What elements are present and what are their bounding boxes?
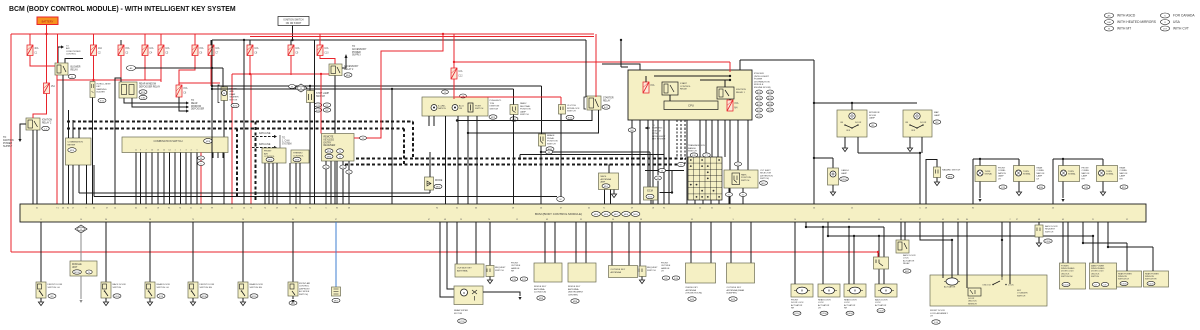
red receiver right feed xyxy=(354,34,443,138)
svg-text:B108: B108 xyxy=(201,296,207,298)
svg-text:CPU: CPU xyxy=(688,104,694,108)
front door lock actuator RH xyxy=(791,284,813,297)
map lamp grounds xyxy=(909,137,911,148)
wire fuse10A-7 down xyxy=(210,56,212,87)
receiver wire ovals xyxy=(323,165,329,169)
dashed D1 turn down xyxy=(412,122,414,159)
cargo lamp xyxy=(828,168,839,185)
wire fuse10A-2 down xyxy=(93,56,95,81)
svg-text:10A: 10A xyxy=(98,47,103,50)
svg-text:ECM: ECM xyxy=(647,190,653,193)
rear power window sw LH xyxy=(1117,271,1142,287)
svg-text:WITH CVT: WITH CVT xyxy=(1173,27,1189,31)
svg-text:15A: 15A xyxy=(183,87,188,90)
junction ign bus xyxy=(291,39,293,41)
svg-text:FOR CANADA: FOR CANADA xyxy=(1173,14,1195,18)
back door lock actuator relay xyxy=(896,240,909,253)
wire fuse stub up xyxy=(319,34,321,45)
dongle unit connector xyxy=(75,225,87,233)
svg-text:15A: 15A xyxy=(650,84,655,87)
turn signal rear RH xyxy=(1097,166,1118,182)
red drop to BCM x232 xyxy=(231,74,233,204)
ECM side network xyxy=(660,192,673,194)
ignition relay 1 xyxy=(717,87,734,99)
wire y152 link xyxy=(541,151,650,153)
wire x687 to BCM xyxy=(686,120,688,204)
wire fuse stub up xyxy=(120,40,122,45)
rear power window sw RH xyxy=(1144,271,1169,287)
black feeds into PDM left xyxy=(602,64,640,70)
svg-text:COMBINATION SWITCH: COMBINATION SWITCH xyxy=(153,139,182,143)
dashed data line D1 xyxy=(67,121,413,123)
svg-text:IGNITIONRELAY 2: IGNITIONRELAY 2 xyxy=(42,120,53,125)
svg-text:15A: 15A xyxy=(125,47,130,50)
stop lamp ovals xyxy=(314,103,322,107)
actuator feed wires xyxy=(794,222,796,284)
transmission range switch xyxy=(688,157,722,200)
svg-text:M: M xyxy=(885,289,887,293)
svg-text:D702: D702 xyxy=(459,321,465,323)
svg-text:M: M xyxy=(1108,28,1110,30)
wires PDM to BCM xyxy=(631,120,633,204)
combination switch xyxy=(122,137,228,153)
wire battery to bus xyxy=(46,25,48,35)
circled conn A6 xyxy=(127,67,212,69)
wire fuse stub up xyxy=(160,34,162,45)
assembly actuator xyxy=(946,278,958,285)
rear door lock actuator LH xyxy=(818,284,840,297)
svg-text:ON: ON xyxy=(840,122,844,124)
svg-text:40A: 40A xyxy=(34,47,39,50)
oval x658 xyxy=(657,120,659,175)
wires receiver to BCM xyxy=(325,161,327,204)
svg-text:D305: D305 xyxy=(1121,283,1127,285)
svg-text:D405: D405 xyxy=(1148,283,1154,285)
svg-text:REAR DOORSWITCH RH: REAR DOORSWITCH RH xyxy=(250,283,264,289)
black h y89 xyxy=(212,88,514,90)
wire fuse15A-6 jog xyxy=(179,56,195,86)
red drop to BCM x251 xyxy=(250,74,252,204)
svg-text:C12: C12 xyxy=(458,75,463,78)
rear door switch LH xyxy=(149,222,151,282)
PDM fuse 15A no2 xyxy=(727,100,739,111)
wire H2 long xyxy=(94,196,557,198)
turn RH wires xyxy=(1052,159,1054,204)
red feed acc relay xyxy=(251,73,329,75)
PDM internal wires xyxy=(654,75,730,77)
wire fuse stub up xyxy=(194,34,196,45)
red bus B xyxy=(454,61,730,63)
red feed defogger xyxy=(57,80,161,82)
red keyless feed xyxy=(320,73,322,75)
hazard switch xyxy=(926,160,937,205)
power window sw RH xyxy=(1060,263,1086,289)
request switch front RH xyxy=(489,222,491,266)
fuse 10A at x288 xyxy=(288,45,300,56)
svg-text:D105: D105 xyxy=(1063,284,1069,286)
fuse 10A pushign xyxy=(451,68,463,79)
outside key antenna rear bumper xyxy=(730,222,732,263)
wire NATS top xyxy=(608,165,610,174)
svg-text:15A: 15A xyxy=(51,85,56,88)
wire x244 down xyxy=(243,40,245,204)
turn signal front LH xyxy=(975,166,996,182)
svg-text:BCM (BODY CONTROL MODULE) - WI: BCM (BODY CONTROL MODULE) - WITH INTELLI… xyxy=(9,6,236,13)
ignition switch source xyxy=(278,17,309,26)
wire y154 link xyxy=(520,154,664,156)
fuse 10A at x247 xyxy=(247,45,259,56)
red feed push ign xyxy=(453,34,455,68)
rear window defogger relay xyxy=(119,82,137,98)
wire fuse stub up xyxy=(290,40,292,45)
red feed clutch xyxy=(455,96,561,98)
dashed data line D2 xyxy=(67,128,404,130)
BCM body control module bar xyxy=(20,204,1146,222)
wire fuse40A down xyxy=(30,56,55,67)
dashed CAN H1 xyxy=(345,158,686,160)
black ignition bus xyxy=(212,39,586,41)
interior lamp feed wire xyxy=(814,102,917,104)
wire fuse10A-10 jog xyxy=(320,56,335,65)
wire fuse stub up xyxy=(93,34,95,45)
black bus to starter xyxy=(585,40,587,97)
svg-text:M: M xyxy=(657,178,659,180)
svg-text:D504: D504 xyxy=(841,179,847,181)
svg-text:10A: 10A xyxy=(215,47,220,50)
wire blower down blk xyxy=(62,75,64,204)
wire fuse15A-3 down xyxy=(120,56,122,83)
svg-text:LOCK: LOCK xyxy=(1008,285,1014,287)
back door request ground xyxy=(1038,237,1040,243)
svg-text:M: M xyxy=(828,289,830,293)
wire clutch down xyxy=(560,114,562,197)
wire x212 down xyxy=(211,40,213,204)
stop lamp switch xyxy=(307,91,315,103)
starter relay xyxy=(584,97,586,109)
svg-text:OFF: OFF xyxy=(911,130,916,132)
fuse 10A at x317 xyxy=(317,45,329,56)
svg-text:M: M xyxy=(463,292,465,295)
cargo lamp ground xyxy=(832,185,834,192)
wire fuse stub up xyxy=(249,40,251,45)
front door lock assembly LH xyxy=(930,275,1047,306)
svg-text:ILLUMI-NATION: ILLUMI-NATION xyxy=(438,106,446,111)
red to back door sw xyxy=(877,251,879,253)
svg-text:10A: 10A xyxy=(149,47,154,50)
push-button ignition switch U1 xyxy=(422,97,488,116)
brake pedal position switch xyxy=(539,134,546,146)
trans ovals xyxy=(690,153,698,157)
remote keyless entry receiver xyxy=(322,134,355,162)
thermo control amp xyxy=(291,150,309,163)
room lamp grounds xyxy=(844,137,846,148)
svg-text:15: 15 xyxy=(80,229,82,231)
dongle ground xyxy=(80,276,82,299)
rear wiper ground link xyxy=(483,292,520,296)
svg-text:USA: USA xyxy=(1173,20,1181,24)
accessory relay 2 xyxy=(329,64,342,76)
svg-text:15A: 15A xyxy=(734,102,739,105)
fuse 40A at x27 xyxy=(27,45,39,56)
ignition relay 2 xyxy=(26,118,40,130)
svg-text:IPDM E/R(INTELLIGENTPOWERDISTR: IPDM E/R(INTELLIGENTPOWERDISTRIBUTIONMOD… xyxy=(754,73,771,89)
outside key antenna front RH xyxy=(456,222,458,264)
svg-text:WITH MT: WITH MT xyxy=(1117,27,1131,31)
comb meter top feeds xyxy=(68,110,70,138)
legend xyxy=(1104,13,1113,18)
PDM fuse 15A xyxy=(643,82,655,93)
wire x314 to BCM xyxy=(314,40,316,204)
svg-text:HM: HM xyxy=(1107,22,1111,24)
svg-text:DATA LINE: DATA LINE xyxy=(259,143,271,146)
comb switch right pins xyxy=(212,153,214,159)
red bus A xyxy=(11,33,594,35)
park pos oval above xyxy=(734,162,741,166)
front door switch LH xyxy=(40,222,42,282)
red washer feed xyxy=(179,82,220,84)
fuse 10A at x208 xyxy=(208,45,220,56)
svg-text:WITH ASCD: WITH ASCD xyxy=(1117,14,1136,18)
svg-text:D506: D506 xyxy=(1045,241,1051,243)
fuse 10A at x158 xyxy=(158,45,170,56)
svg-text:10A: 10A xyxy=(458,70,463,73)
wire fuse10A-9 down xyxy=(290,56,292,76)
power window wires xyxy=(1062,222,1064,263)
svg-text:D114: D114 xyxy=(794,313,800,315)
blue wire connector xyxy=(332,287,341,296)
push ign internals xyxy=(431,105,437,111)
svg-text:WITH HEATED MIRRORS: WITH HEATED MIRRORS xyxy=(1117,20,1157,24)
back door switch xyxy=(105,222,107,282)
red drop x57 xyxy=(57,34,59,63)
fuse 15A defog xyxy=(176,85,188,97)
outside key antenna front LH xyxy=(611,222,613,266)
wires air control down xyxy=(264,163,266,204)
request sw RH ground xyxy=(489,277,491,281)
park position switch xyxy=(724,170,758,188)
wire fuse stub up xyxy=(144,34,146,45)
dashed vert x237 xyxy=(236,129,238,197)
rear door switch RH xyxy=(242,222,244,282)
wire defog relay to bcm xyxy=(114,98,116,204)
wires to rear wiper xyxy=(440,222,454,297)
black h y86 xyxy=(212,85,542,87)
wires park pos xyxy=(737,120,739,162)
rear door lock actuator RH xyxy=(844,284,866,297)
dongle unit xyxy=(70,261,97,276)
blue wire xyxy=(335,222,337,287)
back door request switch xyxy=(1038,222,1040,225)
svg-text:D505: D505 xyxy=(114,296,120,298)
hazard ground xyxy=(936,178,938,183)
wire PDM to ECM xyxy=(647,120,649,187)
svg-text:D304: D304 xyxy=(821,313,827,315)
svg-text:M: M xyxy=(548,152,550,154)
svg-text:10A: 10A xyxy=(165,47,170,50)
wire washer feed xyxy=(212,67,223,69)
turn signal front RH xyxy=(1059,166,1080,182)
wire washer down xyxy=(223,101,225,205)
svg-text:M: M xyxy=(801,289,803,293)
svg-text:CVT: CVT xyxy=(1163,28,1168,30)
wire stop lamp xyxy=(309,86,311,91)
svg-text:D508: D508 xyxy=(878,311,884,313)
svg-text:DATA LINE: DATA LINE xyxy=(259,132,271,135)
junction bus B xyxy=(453,61,455,63)
start control relay xyxy=(662,82,678,95)
turn signal rear LH xyxy=(1014,166,1035,182)
power distribution module PDM xyxy=(628,70,752,120)
PDM connector ovals xyxy=(756,90,763,94)
inside key antenna console xyxy=(544,222,546,263)
front door switch RH xyxy=(192,222,194,282)
request sw LH ground xyxy=(641,277,643,281)
dashed CAN H2 xyxy=(345,164,677,166)
park neutral position switch xyxy=(510,105,518,115)
wire fuse to ignition relay2 xyxy=(46,34,48,83)
NATS antenna amp xyxy=(599,173,619,190)
wire ECM down xyxy=(650,200,652,204)
park neutral oval xyxy=(510,117,518,121)
wires back door relay xyxy=(900,222,902,240)
svg-text:10A: 10A xyxy=(254,47,259,50)
fuse 10A at x142 xyxy=(142,45,154,56)
clutch interlock switch xyxy=(559,105,566,115)
svg-text:ON OR START: ON OR START xyxy=(286,22,302,25)
svg-text:HAZARD SWITCH: HAZARD SWITCH xyxy=(942,169,961,172)
wires push ign to BCM xyxy=(445,116,447,204)
red distribution y74 xyxy=(232,73,329,75)
wire brake feed xyxy=(541,86,543,134)
CPU box xyxy=(664,101,718,110)
red bottom long wire xyxy=(11,251,878,253)
red feed starter relay xyxy=(595,34,597,97)
fuse 15A at x118 xyxy=(118,45,130,56)
red left trunk down xyxy=(10,34,12,252)
wires grid to BCM xyxy=(694,200,696,204)
wire H1 long xyxy=(79,192,430,194)
dashed D2 turn down xyxy=(403,129,405,165)
junction battery bus xyxy=(45,33,47,35)
inside key antenna instrument xyxy=(575,222,577,263)
back door lock actuator xyxy=(875,284,897,297)
dashed vert x255 xyxy=(255,122,257,201)
turn LH wires xyxy=(972,159,974,204)
svg-text:ON: ON xyxy=(905,122,909,124)
svg-text:M158: M158 xyxy=(74,272,80,274)
svg-text:IGNITION SWITCH: IGNITION SWITCH xyxy=(284,20,304,22)
wire fuse10A-4 down xyxy=(144,56,146,81)
door unlock sensor xyxy=(968,288,981,296)
svg-text:M: M xyxy=(200,158,202,160)
wires starter relay down xyxy=(457,110,592,121)
fuse 15A ign xyxy=(44,83,56,94)
back door lock switch xyxy=(874,257,889,269)
fuse 10A at x90.5 xyxy=(91,45,103,56)
wire fuse to relay2 xyxy=(33,94,47,119)
red comb switch wire xyxy=(200,153,202,205)
wires into assembly xyxy=(942,222,944,278)
wires comb meter to bcm xyxy=(68,165,70,204)
blower relay xyxy=(55,63,68,75)
front air control xyxy=(262,148,286,163)
connector ovals y87 xyxy=(289,85,296,89)
diode M62 xyxy=(425,177,434,190)
ECM xyxy=(644,187,658,200)
interior room lamp xyxy=(837,110,867,137)
svg-text:ACTUATOR: ACTUATOR xyxy=(944,286,956,289)
wire diode xyxy=(429,152,431,177)
svg-text:BCM (BODY CONTROL MODULE): BCM (BODY CONTROL MODULE) xyxy=(535,212,582,216)
wire relay2 down xyxy=(32,130,34,204)
svg-text:15A: 15A xyxy=(199,47,204,50)
svg-text:10A: 10A xyxy=(324,47,329,50)
svg-text:IGNITIONRELAY 1: IGNITIONRELAY 1 xyxy=(736,89,746,94)
wire buzzer drops xyxy=(91,98,93,205)
dashed PDM CAN xyxy=(676,120,678,159)
wire acc relay down xyxy=(334,76,336,205)
wire fuse10A-8 down xyxy=(249,56,251,75)
svg-text:UNLOCK: UNLOCK xyxy=(982,285,991,287)
wire brake down xyxy=(540,146,542,204)
front and rear washer motor xyxy=(221,87,228,101)
map lamp xyxy=(903,110,932,137)
svg-text:DIODE: DIODE xyxy=(435,180,443,182)
svg-text:C10: C10 xyxy=(324,52,329,55)
wire jog assembly xyxy=(920,222,952,240)
combination meter xyxy=(66,138,92,165)
svg-text:BATTERY: BATTERY xyxy=(42,19,54,23)
wire fuse10A-5 down xyxy=(160,56,162,81)
svg-text:M: M xyxy=(223,93,225,95)
svg-text:10A: 10A xyxy=(295,47,300,50)
wires thermo down xyxy=(289,163,291,204)
wire into room lamp xyxy=(851,103,853,110)
inside key antenna trunk room xyxy=(690,222,692,263)
main power window sw xyxy=(1090,263,1117,289)
fuse 15A at x192 xyxy=(192,45,204,56)
wire x392 to BCM xyxy=(391,89,393,204)
svg-text:REAR DOORSWITCH LH: REAR DOORSWITCH LH xyxy=(157,283,171,289)
cargo lamp branch xyxy=(814,157,833,159)
red bus A2 xyxy=(250,36,594,38)
front air control defrost xyxy=(292,222,294,282)
wire ignition switch down xyxy=(292,26,294,41)
wires combination switch to BCM xyxy=(135,153,137,205)
wire blower down red xyxy=(56,75,58,204)
lamp return wire xyxy=(858,152,920,154)
svg-text:M: M xyxy=(854,289,856,293)
red fuse to push xyxy=(453,79,455,99)
rear wiper motor xyxy=(454,286,483,305)
wire blower to A/C xyxy=(58,47,61,63)
wire fuse stub up xyxy=(210,40,212,45)
svg-text:B116: B116 xyxy=(252,296,258,298)
wire park neutral xyxy=(513,89,515,105)
intelligent key warning buzzer xyxy=(90,82,95,98)
svg-text:14N: 14N xyxy=(141,97,145,99)
red feed PDM xyxy=(729,62,731,72)
svg-text:DOOR: DOOR xyxy=(855,122,862,124)
oval on wire x632 xyxy=(628,128,636,132)
wire fuse stub up xyxy=(29,34,31,45)
wires NATS down xyxy=(604,190,606,205)
svg-text:OFF: OFF xyxy=(846,130,851,132)
svg-text:DOOR: DOOR xyxy=(920,122,927,124)
battery B1 xyxy=(37,17,58,25)
request switch front LH xyxy=(639,222,641,266)
svg-text:M: M xyxy=(560,199,562,201)
